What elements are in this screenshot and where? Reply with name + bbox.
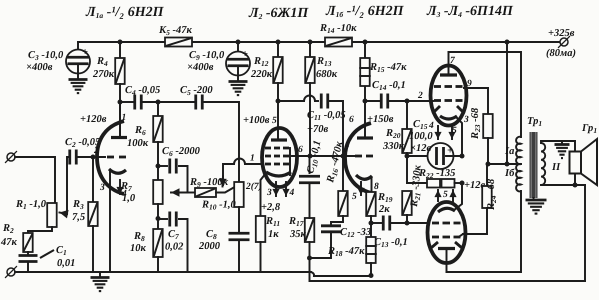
tube L2 grid3 row — [265, 147, 271, 150]
resistor R11 1k — [256, 216, 265, 242]
svg-text:R20: R20 — [385, 128, 401, 140]
ground below C9 — [229, 80, 248, 83]
svg-text:C15: C15 — [413, 119, 428, 131]
transformer Tr1 primary Ia — [516, 137, 521, 164]
wire ground bus right segment — [314, 275, 371, 277]
tube L4 envelope — [428, 202, 466, 263]
svg-text:1,0: 1,0 — [122, 193, 136, 204]
capacitor C10 0.1 — [309, 156, 311, 173]
node R19 bottom — [369, 221, 374, 226]
svg-text:C8: C8 — [206, 229, 217, 241]
transformer Tr1 core — [530, 132, 538, 198]
svg-text:+: + — [82, 47, 88, 58]
wire L4 grid in — [407, 222, 428, 224]
node L4 grid junction — [405, 221, 410, 226]
svg-text:R14 -10к: R14 -10к — [319, 23, 357, 35]
svg-text:Гр1: Гр1 — [581, 123, 597, 135]
ground on secondary — [561, 141, 563, 144]
resistor R21 330k — [402, 191, 412, 215]
svg-text:Л1а -¹/₂ 6Н2П: Л1а -¹/₂ 6Н2П — [85, 5, 165, 20]
tube L1b plate — [357, 136, 373, 139]
svg-text:+2,8: +2,8 — [261, 202, 281, 213]
speaker Gr1 — [570, 152, 582, 174]
capacitor C11 0.05 — [320, 94, 323, 109]
svg-text:2000: 2000 — [198, 241, 221, 252]
node cathode R22 right — [460, 181, 465, 186]
tube L3 beam plates — [433, 106, 440, 113]
svg-text:5: 5 — [452, 126, 457, 136]
tube L4 screen row — [432, 236, 439, 239]
node center tap drop — [505, 162, 510, 167]
tube L1b cathode pin8 — [356, 175, 372, 179]
svg-text:(80ма): (80ма) — [546, 48, 576, 59]
svg-text:R17: R17 — [288, 216, 304, 228]
svg-text:0,01: 0,01 — [57, 258, 75, 269]
tube L2 plate pin5 — [277, 101, 279, 140]
svg-text:7,5: 7,5 — [72, 212, 85, 223]
tube L3 grid row — [434, 99, 441, 102]
resistor R12 220k — [277, 42, 279, 57]
tube L3 heater arrows — [437, 126, 439, 139]
svg-text:Iа: Iа — [504, 146, 514, 157]
tube L1b grid — [355, 155, 362, 158]
ground below C3 — [69, 78, 88, 81]
node R18 ground — [369, 273, 374, 278]
svg-text:7: 7 — [450, 56, 456, 66]
svg-text:II: II — [551, 162, 561, 173]
svg-text:+70в: +70в — [307, 124, 328, 135]
svg-text:3: 3 — [99, 183, 105, 193]
tube L1b envelope — [345, 123, 371, 193]
svg-text:Л1б -¹/₂ 6Н2П: Л1б -¹/₂ 6Н2П — [325, 4, 405, 19]
svg-text:R3: R3 — [72, 199, 84, 211]
svg-text:R18 -47к: R18 -47к — [327, 246, 365, 258]
tube L2 grid1 row — [265, 163, 271, 166]
svg-text:5: 5 — [352, 192, 357, 202]
node cathode C15 right — [460, 154, 465, 159]
wire bottom return bus — [310, 258, 586, 281]
svg-text:К5 -47к: К5 -47к — [158, 25, 192, 37]
tube L1a envelope — [97, 121, 124, 194]
svg-text:C11 -0,05: C11 -0,05 — [307, 110, 346, 122]
node L3 grid junction — [405, 99, 410, 104]
wire L2 anode to C11 with hop — [278, 100, 304, 102]
svg-text:R4: R4 — [96, 56, 108, 68]
node L1b grid junction — [341, 154, 346, 159]
resistor R1 1.0 volume pot — [47, 203, 57, 227]
svg-text:1к: 1к — [268, 229, 279, 240]
resistor K5 47k — [165, 38, 192, 47]
wire plate row left — [120, 101, 134, 103]
tube L4 grid row — [432, 222, 439, 225]
svg-text:47к: 47к — [0, 237, 18, 248]
tube L3 envelope — [431, 66, 467, 126]
svg-text:10к: 10к — [130, 243, 147, 254]
resistor R6 100k — [157, 102, 159, 116]
svg-text:R8: R8 — [133, 231, 145, 243]
svg-text:270к: 270к — [92, 69, 115, 80]
resistor R8 10k — [157, 204, 159, 229]
svg-text:8: 8 — [374, 182, 379, 192]
svg-text:Л3 -Л4 -6П14П: Л3 -Л4 -6П14П — [426, 4, 514, 19]
resistor R16 470k — [342, 156, 344, 191]
svg-text:×400в: ×400в — [26, 62, 53, 73]
capacitor C4 0.05 — [133, 95, 136, 110]
potentiometer R1 1.0 wiper arrow — [60, 213, 68, 215]
node R12 top — [276, 40, 281, 45]
wire pot bottom to R2 — [28, 227, 52, 231]
wire L3 screen pin9 — [464, 87, 488, 89]
svg-text:C9 -10,0: C9 -10,0 — [189, 50, 225, 62]
svg-text:100,0: 100,0 — [409, 131, 433, 142]
svg-text:1: 1 — [122, 113, 127, 123]
terminal +325V — [560, 38, 568, 46]
resistor R10 1.0 — [234, 182, 244, 207]
wire R9 to R10 top — [216, 185, 239, 193]
wire C2 to grid — [77, 156, 105, 158]
svg-text:+325в: +325в — [548, 28, 575, 39]
node R4 top — [118, 40, 123, 45]
svg-text:1: 1 — [250, 154, 255, 164]
svg-text:+120в: +120в — [80, 114, 107, 125]
capacitor C8 2000 — [238, 207, 240, 233]
node C14 junction — [363, 99, 368, 104]
svg-text:×400в: ×400в — [187, 62, 214, 73]
tube L3 plate pin7 — [448, 52, 450, 75]
resistor R24 68 — [486, 164, 488, 186]
capacitor C15 100.0 — [407, 155, 434, 157]
node C12 R17 junction — [307, 256, 312, 261]
wire L4 screen out — [460, 234, 463, 236]
tube L2 envelope — [262, 128, 297, 187]
svg-text:6: 6 — [298, 145, 303, 155]
resistor R4 270k — [119, 42, 121, 58]
capacitor C2 0.05 — [68, 150, 71, 165]
resistor R22 135 — [407, 182, 427, 184]
capacitor C9 10.0 electrolytic — [237, 42, 239, 52]
terminal input upper — [7, 153, 15, 161]
capacitor C3 10.0 electrolytic — [77, 42, 79, 50]
svg-text:35к: 35к — [289, 229, 307, 240]
svg-text:Тр1: Тр1 — [527, 116, 542, 128]
wire primary bottom to L4 plate — [447, 191, 522, 272]
node L1a plate — [118, 100, 123, 105]
svg-text:2(7): 2(7) — [245, 182, 262, 192]
tube L4 plate pin7 — [438, 247, 455, 250]
node R6 top — [156, 100, 161, 105]
wire main ground bus — [15, 271, 311, 273]
capacitor C12 33 — [321, 224, 341, 227]
wire L2 grid with hop — [245, 163, 262, 165]
svg-text:×12в: ×12в — [410, 143, 431, 154]
tube L2 grid2 row — [265, 155, 271, 158]
node R13 screen junction — [308, 154, 313, 159]
svg-text:2: 2 — [93, 146, 99, 156]
svg-text:R11: R11 — [265, 216, 280, 228]
resistor R2 47k — [27, 231, 29, 233]
resistor R20 330k — [406, 101, 408, 129]
svg-text:C5 -200: C5 -200 — [180, 85, 213, 97]
resistor R15 47k — [364, 42, 366, 58]
tube L4 cathode — [438, 208, 455, 212]
wire secondary top — [541, 141, 575, 152]
capacitor C14 0.1 — [365, 100, 381, 102]
resistor R18 47k — [370, 216, 372, 237]
svg-text:C10 -0,1: C10 -0,1 — [305, 139, 324, 175]
svg-text:R24 -68: R24 -68 — [486, 178, 498, 211]
resistor R13 680k — [309, 42, 311, 57]
svg-text:R1 -1,0: R1 -1,0 — [15, 199, 47, 211]
svg-text:R22 -135: R22 -135 — [418, 168, 455, 180]
svg-text:R6: R6 — [134, 125, 146, 137]
node B+ takeoff — [505, 40, 510, 45]
svg-text:+100в: +100в — [243, 115, 270, 126]
node R7 bottom — [156, 216, 161, 221]
svg-text:C4 -0,05: C4 -0,05 — [125, 85, 160, 97]
tube L1a grid — [107, 156, 114, 159]
svg-text:C3 -10,0: C3 -10,0 — [28, 50, 64, 62]
node L2 anode top — [276, 99, 281, 104]
svg-text:R23 -68: R23 -68 — [470, 107, 482, 140]
potentiometer R9 100k — [188, 192, 196, 194]
svg-text:R19: R19 — [377, 192, 393, 204]
wire secondary bottom — [541, 184, 585, 186]
node R13 top — [308, 40, 313, 45]
resistor R3 7.5 — [91, 155, 96, 160]
svg-text:Л2 -6Ж1П: Л2 -6Ж1П — [248, 6, 309, 21]
ground below Tr1 core — [533, 198, 535, 200]
tube L1a heater arrow pin 4 — [119, 180, 121, 194]
transformer Tr1 secondary II — [541, 143, 545, 185]
resistor R7 1.0 — [153, 180, 163, 204]
svg-text:330к: 330к — [382, 141, 405, 152]
wire input to pot — [15, 157, 55, 203]
svg-text:680к: 680к — [316, 69, 338, 80]
resistor R17 35k — [305, 218, 315, 242]
capacitor C6 2000 — [158, 165, 167, 167]
svg-text:R7: R7 — [120, 181, 132, 193]
node C6 junction — [156, 164, 161, 169]
wire B+ to center tap — [506, 42, 508, 164]
wire pot wiper to C2 — [67, 157, 70, 214]
svg-text:+: + — [242, 49, 248, 60]
svg-text:0,02: 0,02 — [165, 242, 184, 253]
capacitor C13 0.1 — [371, 222, 381, 224]
wire L3 plate to primary — [449, 52, 522, 137]
svg-text:R12: R12 — [253, 56, 269, 68]
svg-text:C6 -2000: C6 -2000 — [162, 146, 201, 158]
svg-text:220к: 220к — [250, 69, 273, 80]
capacitor C7 0.02 — [158, 218, 167, 220]
svg-text:5: 5 — [272, 116, 277, 126]
tube L1a plate — [111, 136, 127, 139]
svg-text:5: 5 — [443, 190, 448, 200]
svg-text:R13: R13 — [316, 56, 332, 68]
resistor R23 68 — [487, 88, 489, 114]
resistor R19 2k — [366, 192, 376, 216]
wire L2 screen out pin6 — [292, 155, 356, 157]
svg-text:+150в: +150в — [367, 114, 394, 125]
wiper arrow into R9 — [222, 176, 225, 187]
svg-text:R2: R2 — [2, 223, 14, 235]
wire secondary to bottom bus — [584, 185, 586, 281]
svg-text:2к: 2к — [378, 204, 390, 215]
wiper arrow into R7 — [171, 192, 188, 194]
capacitor C1 0.01 — [27, 252, 29, 255]
ground main bus — [99, 272, 101, 277]
svg-text:C14 -0,1: C14 -0,1 — [372, 80, 406, 92]
tube L1b heater arrow pin 5 — [360, 182, 362, 195]
svg-text:7: 7 — [344, 145, 350, 155]
terminal input lower — [7, 268, 15, 276]
svg-text:4: 4 — [428, 121, 434, 131]
svg-text:C7: C7 — [168, 229, 179, 241]
tube L3 screen row — [434, 85, 441, 88]
node speaker bottom — [573, 183, 578, 188]
tube L4 heater arrows — [437, 190, 439, 201]
svg-text:6: 6 — [349, 115, 354, 125]
svg-text:2: 2 — [417, 91, 423, 101]
svg-text:C13 -0,1: C13 -0,1 — [374, 237, 408, 249]
tube L2 heater arrows pins 3 4 — [275, 182, 277, 196]
tube L2 cathode — [266, 172, 291, 176]
node C15 left — [405, 154, 410, 159]
svg-text:4: 4 — [289, 188, 295, 198]
node C9 top — [236, 40, 241, 45]
node screen junction — [486, 162, 491, 167]
svg-text:3: 3 — [463, 115, 469, 125]
transformer Tr1 primary Ib — [516, 164, 521, 191]
wire top B+ rail — [78, 41, 165, 43]
tube L1a cathode — [109, 169, 126, 173]
tube L4 beam plates — [431, 242, 438, 248]
svg-text:R10 -1,0: R10 -1,0 — [201, 200, 237, 212]
svg-text:3: 3 — [266, 188, 272, 198]
svg-text:C1: C1 — [56, 245, 67, 257]
tube L3 cathode — [440, 116, 457, 119]
capacitor C5 200 — [194, 95, 197, 110]
svg-text:Iб: Iб — [504, 168, 515, 179]
wire C11 to L1b grid — [328, 101, 343, 156]
svg-text:+: + — [447, 146, 453, 157]
resistor R14 10k — [325, 38, 352, 47]
node R15 top — [363, 40, 368, 45]
svg-text:R15 -47к: R15 -47к — [369, 62, 407, 74]
svg-text:100к: 100к — [127, 138, 149, 149]
